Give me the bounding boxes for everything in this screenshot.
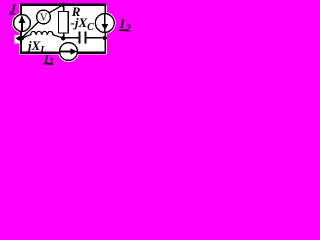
wire coil left lead: [22, 35, 31, 39]
wire top: [20, 4, 106, 6]
label J underline: [9, 13, 16, 14]
label I2 underline: [119, 30, 128, 32]
wire left lower: [20, 31, 22, 54]
node dot top junction: [61, 3, 65, 7]
ammeter I1 circle on bottom wire: [60, 43, 78, 61]
wire left upper: [20, 4, 22, 15]
inductor L coil: [31, 31, 53, 35]
wire voltmeter to left junction: [22, 22, 39, 38]
current element I2 arrow down: [102, 14, 109, 33]
wire bottom right: [77, 52, 106, 54]
voltmeter V1 circle: [37, 10, 51, 24]
wire right lower: [104, 32, 106, 54]
current arrow at left junction: [15, 36, 20, 42]
current element I2 circle: [95, 14, 114, 33]
wire R bottom stub: [63, 33, 65, 39]
capacitor C plate right: [85, 32, 87, 44]
current source J circle: [14, 15, 31, 32]
wire middle right segment: [86, 37, 105, 39]
capacitor C plate left: [79, 32, 81, 44]
wire right upper: [104, 4, 106, 14]
node dot middle-right junction: [103, 36, 107, 40]
label I1 underline: [43, 63, 53, 65]
wire coil right lead: [53, 35, 63, 39]
wire middle left segment: [63, 37, 79, 39]
wire bottom left: [20, 52, 60, 54]
wire voltmeter to top junction: [49, 5, 63, 13]
node dot middle-left junction: [61, 36, 66, 41]
node dot left junction: [20, 36, 24, 40]
current source J arrow: [19, 16, 26, 31]
white paper region: [12, 4, 116, 62]
wire R top stub: [63, 5, 65, 12]
resistor R box: [59, 12, 69, 34]
svg-text:V: V: [40, 13, 48, 24]
ammeter I1 arrow right: [61, 48, 77, 55]
background: [0, 0, 137, 73]
